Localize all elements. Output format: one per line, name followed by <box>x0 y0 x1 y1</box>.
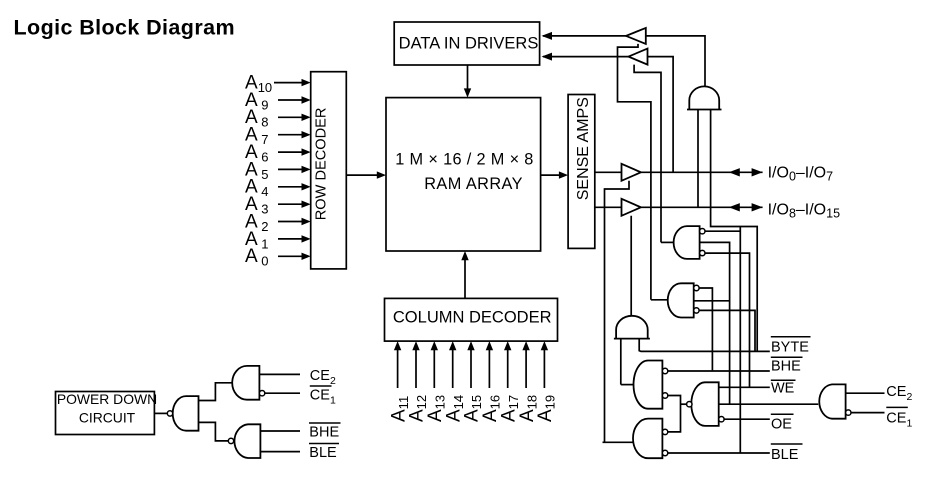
input A9 <box>245 90 311 113</box>
svg-text:COLUMN DECODER: COLUMN DECODER <box>393 308 552 326</box>
wire G2 mid input joins chip-enable riser <box>694 300 730 302</box>
NAND gate G2 (points left) <box>668 283 694 317</box>
wire G1 top bubble input <box>705 230 740 232</box>
svg-text:BYTE: BYTE <box>771 340 809 356</box>
box ROW DECODER <box>311 72 347 269</box>
wire DATA IN DRIVERS to RAM <box>464 65 471 98</box>
svg-text:POWER DOWN: POWER DOWN <box>57 391 157 407</box>
wire CE2 input (PD) <box>259 373 300 375</box>
wire Binv2 enable from gate G1 output <box>634 65 661 243</box>
box POWER DOWN CIRCUIT <box>56 392 155 435</box>
input A18 <box>517 341 540 422</box>
svg-text:WE: WE <box>771 380 795 396</box>
wire WE label line from gate B top input <box>719 386 770 388</box>
input A11 <box>388 341 411 422</box>
wire Binv1 enable from gate G2 output <box>618 44 651 300</box>
arrowhead I/O0 line left <box>729 168 740 176</box>
buffer Binv2 (data-in, points left) <box>628 49 647 65</box>
bubble G1 bottom input <box>700 250 705 255</box>
box COLUMN DECODER <box>385 298 558 341</box>
wire OE label line from gate B bottom bubble <box>724 418 770 420</box>
input A5 <box>245 159 311 182</box>
input A10 <box>245 73 311 96</box>
NAND gate B (points left) <box>691 382 718 426</box>
arrowhead I/O8 line right <box>752 203 763 211</box>
buffer B1 (sense amp, points right) <box>622 164 641 181</box>
input A12 <box>407 341 430 422</box>
input A2 <box>245 211 311 234</box>
wire AND U1 right input (BYTE net riser) <box>711 110 758 352</box>
wire COLUMN DECODER to RAM <box>461 251 468 298</box>
arrowhead into DATA IN DRIVERS lower <box>542 53 553 61</box>
wire gate A bottom bubble to gate B output net <box>668 396 681 432</box>
bubble PD bottom gate output <box>228 438 233 443</box>
wire BYTE net drop to BLE line <box>739 227 741 454</box>
NAND gate PD top (points left) <box>232 366 259 400</box>
wire G1 output to Binv2 enable riser <box>661 241 674 243</box>
NAND gate PD bottom (points left) <box>234 424 260 458</box>
buffer Binv1 (data-in, points left) <box>626 28 646 44</box>
wire SENSE AMPS to buffer B1 <box>595 171 622 173</box>
bubble gate A bottom input <box>662 393 667 398</box>
wire CE1 input of CE gate <box>851 412 885 414</box>
bubble G2 top input <box>694 285 699 290</box>
arrowhead I/O0 line right <box>752 168 763 176</box>
wire B1 enable to gate C output <box>605 181 630 443</box>
wire buffer Binv2 output to DATA IN DRIVERS <box>543 56 628 58</box>
box RAM ARRAY <box>386 98 541 251</box>
input A4 <box>245 177 311 200</box>
bubble G2 bottom input <box>694 308 699 313</box>
wire ROW DECODER to RAM <box>346 171 386 178</box>
wire Gbyte left input from gate A output <box>620 339 622 385</box>
svg-text:ROW DECODER: ROW DECODER <box>314 108 330 221</box>
input A16 <box>480 341 503 422</box>
wire gate A top bubble to BHE label (BHE line) <box>668 370 770 372</box>
svg-text:DATA IN DRIVERS: DATA IN DRIVERS <box>399 34 539 52</box>
bubble G1 top input <box>700 229 705 234</box>
wire AND U1 left input to I/O8 line <box>697 110 699 208</box>
arrowhead into DATA IN DRIVERS upper <box>542 32 553 40</box>
bubble gate B output <box>687 402 692 407</box>
wire BLE label line from gate C bottom bubble <box>668 452 770 454</box>
input A3 <box>245 194 311 217</box>
wire G2 top bubble input to BHE riser <box>699 288 712 370</box>
svg-text:Logic Block Diagram: Logic Block Diagram <box>14 16 235 40</box>
svg-text:CIRCUIT: CIRCUIT <box>79 410 136 426</box>
input A7 <box>245 125 311 148</box>
svg-text:I/O0–I/O7: I/O0–I/O7 <box>768 164 834 183</box>
wire gate A output <box>621 384 634 386</box>
input A19 <box>535 341 558 422</box>
wire gate B output bubble to net <box>681 403 687 405</box>
NAND gate A (points left) <box>634 361 663 409</box>
input A14 <box>443 341 466 422</box>
bubble gate A top input <box>662 368 667 373</box>
bubble PD mid gate output <box>167 411 172 416</box>
svg-text:BHE: BHE <box>309 424 339 440</box>
wire I/O8 line <box>641 206 763 208</box>
wire CE2 input of CE gate <box>846 392 885 394</box>
wire Gbyte output to B2 enable <box>630 216 632 316</box>
NAND gate PD mid (points left) <box>173 396 199 431</box>
svg-text:BLE: BLE <box>771 447 799 463</box>
arrowhead I/O8 line left <box>729 203 740 211</box>
wire G2 bottom bubble input to BYTE line <box>699 310 755 351</box>
wire BLE input (PD) <box>260 451 300 453</box>
wire PD top gate output to PD mid gate top input <box>199 383 233 401</box>
buffer B2 (sense amp, points right) <box>622 199 641 216</box>
wire PD mid gate bottom input to PD bottom gate output <box>199 422 229 441</box>
wire buffer Binv1 output to DATA IN DRIVERS <box>543 35 626 37</box>
box DATA IN DRIVERS <box>394 22 539 65</box>
wire SENSE AMPS to buffer B2 <box>595 206 622 208</box>
wire Binv2 input tap from I/O0 line <box>648 57 674 173</box>
bubble gate B bottom input <box>719 417 724 422</box>
wire CE1 input (PD) <box>265 392 300 394</box>
AND gate Gbyte (points up) <box>614 316 650 339</box>
NAND gate G1 (points left) <box>674 226 700 259</box>
wire I/O0 line <box>641 171 763 173</box>
AND gate U1 (points up) <box>687 86 722 109</box>
input A13 <box>425 341 448 422</box>
NAND gate C (points left) <box>633 419 662 459</box>
wire gate C output <box>603 441 634 443</box>
svg-text:OE: OE <box>771 417 792 433</box>
input A0 <box>245 246 311 269</box>
wire BHE input (PD) <box>260 430 300 432</box>
svg-text:BLE: BLE <box>309 445 337 461</box>
input A15 <box>462 341 485 422</box>
wire G1 bottom bubble input to WE <box>705 253 750 387</box>
input A6 <box>245 142 311 165</box>
svg-text:RAM ARRAY: RAM ARRAY <box>424 175 523 193</box>
bubble gate C top input <box>662 429 667 434</box>
box SENSE AMPS <box>568 95 595 249</box>
bubble gate C bottom input <box>662 450 667 455</box>
NAND gate CE (points left) <box>819 384 845 418</box>
svg-text:1 M × 16 / 2 M × 8: 1 M × 16 / 2 M × 8 <box>395 151 533 169</box>
wire G1 mid input (chip-enable net riser) <box>700 242 730 404</box>
input A1 <box>245 229 311 252</box>
wire chip-enable line from gate B mid input to CE gate output <box>719 403 819 405</box>
wire BYTE label line <box>639 339 770 352</box>
bubble CE gate CE1 input <box>846 410 851 415</box>
svg-text:BHE: BHE <box>771 358 801 374</box>
input A8 <box>245 107 311 130</box>
wire Binv1 input from AND U1 output <box>646 36 705 87</box>
wire G2 output to Binv1 enable riser <box>651 299 668 301</box>
bubble PD top gate CE1 input <box>259 391 264 396</box>
input A17 <box>498 341 521 422</box>
wire RAM to SENSE AMPS <box>541 171 569 178</box>
wire POWER DOWN box to PD mid gate bubble <box>154 412 167 414</box>
svg-text:SENSE AMPS: SENSE AMPS <box>575 97 592 200</box>
